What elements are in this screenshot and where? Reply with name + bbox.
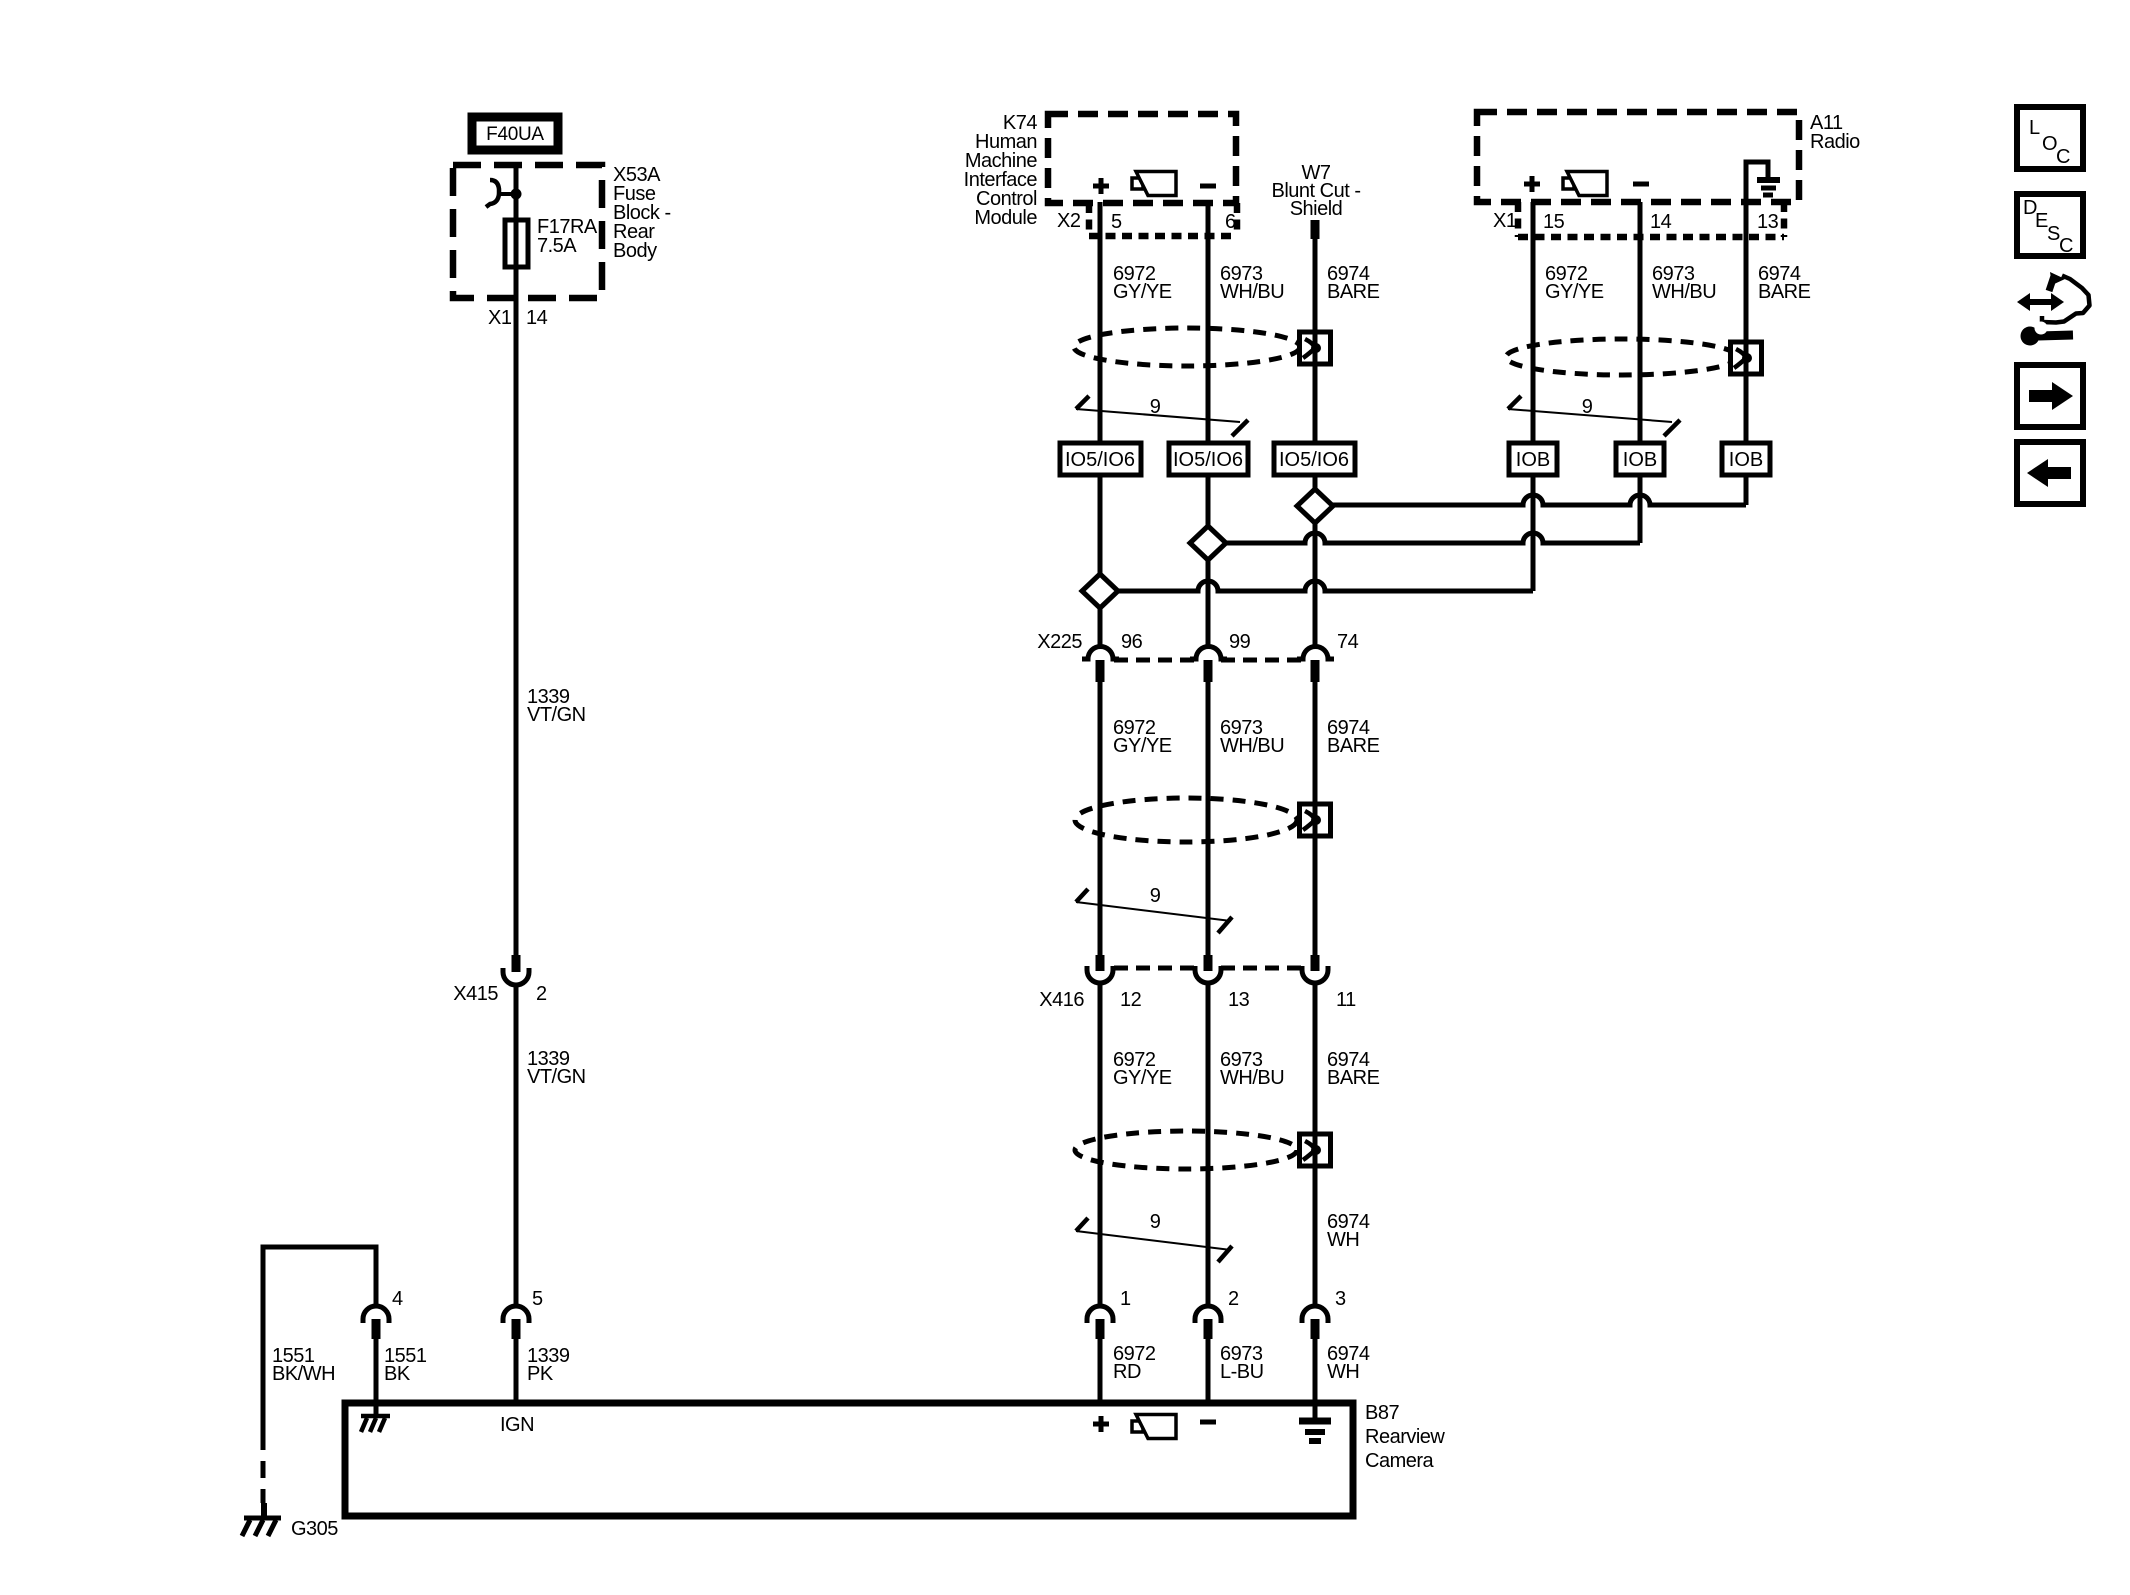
forward arrow button — [2017, 365, 2083, 427]
svg-text:VT/GN: VT/GN — [527, 704, 586, 726]
svg-text:RD: RD — [1113, 1361, 1141, 1383]
shield termination square (lower) — [1300, 1134, 1331, 1166]
twisted pair symbol 9 (radio) — [1508, 396, 1680, 436]
camera ground branch wire to G305 — [263, 1247, 376, 1433]
svg-text:5: 5 — [532, 1288, 543, 1310]
dashed wire to G305 — [261, 1433, 266, 1503]
svg-text:9: 9 — [1150, 1211, 1161, 1233]
svg-text:6: 6 — [1225, 211, 1236, 233]
radio internal ground wire — [1746, 162, 1768, 210]
fuse block X53A dashed box — [453, 165, 602, 298]
connector X225 dashed line — [1114, 658, 1302, 663]
svg-text:L-BU: L-BU — [1220, 1361, 1264, 1383]
svg-text:1: 1 — [1120, 1288, 1131, 1310]
module A11 radio dashed box — [1477, 112, 1799, 202]
circuit box IOB wire 14 — [1616, 443, 1664, 475]
svg-text:GY/YE: GY/YE — [1113, 281, 1172, 303]
svg-text:13: 13 — [1757, 211, 1779, 233]
svg-text:X1: X1 — [488, 307, 512, 329]
shield ellipse (mid) — [1075, 798, 1297, 842]
wire 6972 GY/YE lower segment — [1098, 985, 1103, 1306]
twisted pair symbol 9 (HMI) — [1076, 396, 1248, 436]
wire 6973 L-BU to camera — [1206, 1339, 1211, 1403]
circuit box IO5/IO6 wire 3 — [1274, 443, 1355, 475]
wire 6974 BARE mid segment — [1313, 682, 1318, 955]
wire 6973 WH/BU lower segment — [1206, 985, 1211, 1306]
wire 6973 WH/BU from K74 pin 6 to X225 — [1206, 202, 1211, 646]
shield ellipse (lower) — [1075, 1131, 1297, 1169]
shield termination square (HMI side) — [1300, 332, 1331, 364]
LOC navigation button — [2017, 107, 2083, 169]
svg-text:9: 9 — [1150, 885, 1161, 907]
connector X415 pin 2 — [503, 955, 529, 985]
connector pin 4 at camera — [363, 1306, 389, 1339]
svg-text:BARE: BARE — [1758, 281, 1811, 303]
back arrow button — [2017, 442, 2083, 504]
label K74 Human Machine Interface Control Module — [964, 112, 1038, 229]
splice diamond on wire 2 — [1190, 526, 1226, 560]
shield termination square (mid) — [1300, 804, 1331, 836]
wire 6973 WH/BU mid segment — [1206, 682, 1211, 955]
shield termination square (radio side) — [1731, 342, 1762, 374]
wire 6974 BARE radio pin 13 — [1744, 203, 1749, 443]
splice diamond on wire 1 — [1082, 574, 1118, 608]
svg-text:Camera: Camera — [1365, 1450, 1435, 1472]
svg-text:BARE: BARE — [1327, 735, 1380, 757]
camera icon in radio — [1563, 172, 1607, 196]
svg-text:X2: X2 — [1057, 210, 1081, 232]
label W7 Blunt Cut - Shield — [1272, 162, 1361, 220]
wire 6973 WH/BU radio pin 14 — [1638, 202, 1643, 443]
plus sign in K74 — [1093, 178, 1109, 194]
svg-text:9: 9 — [1582, 396, 1593, 418]
svg-text:3: 3 — [1335, 1288, 1346, 1310]
svg-text:B87: B87 — [1365, 1402, 1399, 1424]
svg-text:IOB: IOB — [1516, 449, 1550, 471]
diagnostic tool icon (arrows and wrench) — [2017, 272, 2090, 346]
svg-text:GY/YE: GY/YE — [1113, 735, 1172, 757]
svg-text:4: 4 — [392, 1288, 403, 1310]
circuit box IOB wire 15 — [1509, 443, 1557, 475]
svg-text:L: L — [2029, 117, 2040, 139]
svg-text:Rearview: Rearview — [1365, 1426, 1445, 1448]
svg-text:IO5/IO6: IO5/IO6 — [1173, 449, 1243, 471]
svg-text:IOB: IOB — [1729, 449, 1763, 471]
svg-text:GY/YE: GY/YE — [1113, 1067, 1172, 1089]
camera icon in camera box — [1132, 1415, 1176, 1439]
label F40UA box — [472, 117, 558, 150]
wire 6972 GY/YE radio pin 15 — [1531, 202, 1536, 443]
DESC navigation button — [2017, 194, 2083, 257]
svg-text:13: 13 — [1228, 989, 1250, 1011]
connector X416 terminal wire 2 pin 13 — [1195, 955, 1221, 983]
connector pin 2 at camera — [1195, 1306, 1221, 1339]
connector X225 terminal wire 3 pin 74 — [1297, 646, 1334, 682]
svg-text:BARE: BARE — [1327, 281, 1380, 303]
splice diamond on shield wire 3 — [1297, 489, 1333, 523]
wire from IOB 13 down to crossover — [1744, 475, 1749, 505]
svg-text:G305: G305 — [291, 1518, 338, 1540]
label A11 Radio — [1810, 112, 1860, 153]
twisted pair symbol 9 (mid) — [1076, 885, 1232, 933]
svg-text:X415: X415 — [453, 983, 498, 1005]
svg-text:Module: Module — [974, 207, 1037, 229]
circuit box IO5/IO6 wire 1 — [1060, 443, 1141, 475]
svg-text:WH: WH — [1327, 1229, 1359, 1251]
svg-text:IOB: IOB — [1623, 449, 1657, 471]
wire 6972 GY/YE mid segment — [1098, 682, 1103, 955]
minus sign in radio — [1633, 182, 1649, 187]
svg-text:F40UA: F40UA — [486, 124, 544, 145]
camera icon in K74 — [1132, 172, 1176, 196]
label X53A Fuse Block - Rear Body — [613, 164, 671, 262]
plus sign in camera — [1093, 1416, 1109, 1432]
wire pin4 to camera box — [374, 1339, 379, 1403]
connector pin 5 at camera — [503, 1306, 529, 1339]
svg-text:X416: X416 — [1039, 989, 1084, 1011]
svg-text:PK: PK — [527, 1363, 554, 1385]
connector X416 dashed line — [1114, 966, 1302, 971]
svg-text:15: 15 — [1543, 211, 1565, 233]
fuse block bus tap — [486, 180, 522, 207]
svg-text:2: 2 — [1228, 1288, 1239, 1310]
svg-text:BARE: BARE — [1327, 1067, 1380, 1089]
svg-text:7.5A: 7.5A — [537, 235, 577, 257]
twisted pair symbol 9 (lower) — [1076, 1211, 1232, 1262]
wire 1339 VT/GN from fuse block through F17RA down to X415 — [514, 165, 519, 955]
wire 6974 BARE lower segment — [1313, 985, 1318, 1306]
circuit box IO5/IO6 wire 2 — [1169, 443, 1248, 475]
svg-text:74: 74 — [1337, 631, 1359, 653]
label B87 Rearview Camera — [1365, 1402, 1445, 1472]
wire from IOB 14 down to crossover — [1638, 475, 1643, 543]
svg-text:WH: WH — [1327, 1361, 1359, 1383]
ground G305 — [242, 1503, 281, 1536]
minus sign in K74 — [1200, 184, 1216, 189]
crossover line from diamond 2 to radio IOB 14 with hops — [1226, 533, 1640, 543]
connector pin 1 at camera — [1087, 1306, 1113, 1339]
camera internal earth ground symbol — [1299, 1403, 1331, 1441]
connector X225 terminal wire 1 pin 96 — [1082, 646, 1119, 682]
wire 6972 RD to camera — [1098, 1339, 1103, 1403]
plus sign in radio — [1524, 176, 1540, 192]
svg-text:11: 11 — [1336, 989, 1356, 1011]
svg-text:9: 9 — [1150, 396, 1161, 418]
svg-text:X225: X225 — [1037, 631, 1082, 653]
svg-text:5: 5 — [1111, 211, 1122, 233]
connector X2 dashed strip — [1089, 203, 1237, 236]
svg-text:C: C — [2059, 235, 2073, 257]
svg-text:X1: X1 — [1493, 210, 1517, 232]
svg-text:14: 14 — [1650, 211, 1672, 233]
connector X416 terminal wire 3 pin 11 — [1302, 955, 1328, 983]
svg-text:IGN: IGN — [500, 1414, 534, 1436]
svg-text:C: C — [2056, 146, 2070, 168]
crossover line from diamond 1 to radio IOB 15 with hops — [1118, 581, 1533, 591]
svg-text:Shield: Shield — [1290, 198, 1343, 220]
wire pin5 to camera box — [514, 1339, 519, 1403]
crossover line from diamond 3 to radio IOB 13 with hops — [1333, 495, 1746, 505]
svg-text:WH/BU: WH/BU — [1220, 281, 1284, 303]
svg-text:14: 14 — [526, 307, 548, 329]
svg-text:99: 99 — [1229, 631, 1251, 653]
module K74 dashed box — [1048, 114, 1236, 203]
svg-text:2: 2 — [536, 983, 547, 1005]
svg-text:BK/WH: BK/WH — [272, 1363, 335, 1385]
svg-text:WH/BU: WH/BU — [1220, 735, 1284, 757]
svg-text:96: 96 — [1121, 631, 1143, 653]
svg-text:12: 12 — [1120, 989, 1142, 1011]
fuse F17RA — [505, 220, 528, 267]
svg-text:Body: Body — [613, 240, 657, 262]
blunt cut shield tip W7 — [1311, 220, 1320, 239]
circuit box IOB wire 13 — [1722, 443, 1770, 475]
connector pin 3 at camera — [1302, 1306, 1328, 1339]
svg-text:IO5/IO6: IO5/IO6 — [1279, 449, 1349, 471]
svg-text:BK: BK — [384, 1363, 411, 1385]
connector X225 terminal wire 2 pin 99 — [1190, 646, 1227, 682]
svg-text:WH/BU: WH/BU — [1652, 281, 1716, 303]
radio internal ground symbol — [1757, 180, 1780, 195]
svg-text:WH/BU: WH/BU — [1220, 1067, 1284, 1089]
svg-text:IO5/IO6: IO5/IO6 — [1065, 449, 1135, 471]
shield ellipse (radio side) — [1506, 339, 1738, 375]
wire 6972 GY/YE from K74 pin 5 to X225 — [1098, 202, 1103, 646]
wire from IOB 15 down to crossover — [1531, 475, 1536, 591]
minus sign in camera — [1200, 1420, 1216, 1425]
svg-text:VT/GN: VT/GN — [527, 1066, 586, 1088]
svg-text:Radio: Radio — [1810, 131, 1860, 153]
wire 6974 WH to camera — [1313, 1339, 1318, 1403]
camera internal chassis ground — [361, 1403, 390, 1432]
module B87 rearview camera box — [345, 1403, 1353, 1516]
svg-text:GY/YE: GY/YE — [1545, 281, 1604, 303]
shield ellipse (HMI side) — [1074, 328, 1300, 366]
wire 1339 PK from X415 to camera pin 5 — [514, 987, 519, 1306]
wire 6974 BARE shield from W7 to X225 — [1313, 239, 1318, 646]
connector X1 dashed strip — [1518, 202, 1784, 237]
connector X416 terminal wire 1 pin 12 — [1087, 955, 1113, 983]
